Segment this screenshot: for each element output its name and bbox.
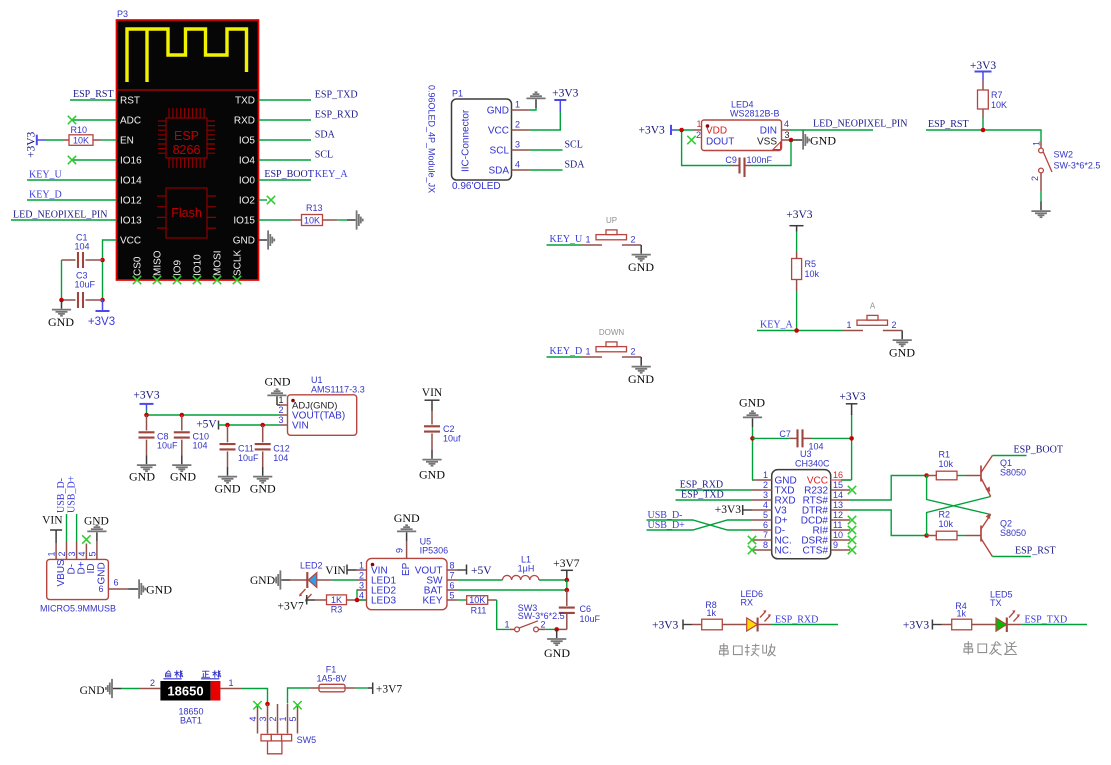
U3 pin 7 lead bbox=[752, 539, 772, 541]
svg-text:KEY_D: KEY_D bbox=[29, 190, 62, 201]
svg-text:3: 3 bbox=[67, 551, 77, 556]
svg-text:KEY_A: KEY_A bbox=[760, 320, 794, 331]
transistor Q2 S8050 bbox=[981, 515, 992, 557]
svg-text:2: 2 bbox=[892, 320, 897, 330]
svg-text:1: 1 bbox=[586, 235, 591, 245]
capacitor C1 104 bbox=[62, 259, 76, 261]
svg-text:14: 14 bbox=[833, 490, 843, 500]
no-connect on CS0 bbox=[133, 276, 141, 284]
svg-text:10k: 10k bbox=[939, 459, 954, 469]
no-connect on MISO bbox=[153, 276, 161, 284]
P1 pin 1 lead bbox=[512, 109, 530, 111]
U3 pin 15 lead bbox=[831, 489, 850, 491]
wire DIN / LED_NEOPIXEL_PIN bbox=[790, 129, 873, 131]
wire U5 BAT to C6 column bbox=[457, 589, 567, 591]
svg-text:ESP_TXD: ESP_TXD bbox=[681, 489, 724, 500]
svg-text:9: 9 bbox=[833, 540, 838, 550]
svg-text:+3V3: +3V3 bbox=[652, 619, 679, 631]
svg-text:USB_D+: USB_D+ bbox=[66, 475, 77, 513]
svg-text:+3V7: +3V7 bbox=[376, 684, 403, 696]
svg-text:IP5306: IP5306 bbox=[420, 546, 449, 556]
capacitor C10 104 bbox=[181, 415, 183, 431]
U3 pin 10 lead bbox=[831, 539, 850, 541]
svg-text:1k: 1k bbox=[957, 608, 967, 618]
wire LED5 to ESP_TXD bbox=[1007, 624, 1022, 626]
LED6 emission arrows bbox=[760, 612, 770, 622]
resistor R7 10K (vertical) bbox=[982, 81, 984, 91]
svg-text:10uF: 10uF bbox=[580, 614, 601, 624]
svg-text:0.96OLED_4P_Module_JX: 0.96OLED_4P_Module_JX bbox=[427, 85, 437, 193]
svg-text:+3V3: +3V3 bbox=[715, 504, 742, 516]
svg-text:10uF: 10uF bbox=[157, 441, 178, 451]
svg-text:IO14: IO14 bbox=[120, 176, 142, 187]
capacitor C3 plates bbox=[78, 292, 83, 308]
U3 pin 1 lead bbox=[752, 479, 772, 481]
svg-text:IO2: IO2 bbox=[239, 196, 256, 207]
svg-text:104: 104 bbox=[75, 242, 90, 252]
svg-text:ESP_RST: ESP_RST bbox=[1015, 545, 1056, 556]
svg-text:1: 1 bbox=[763, 470, 768, 480]
svg-text:ESP: ESP bbox=[174, 129, 199, 143]
svg-text:Q1: Q1 bbox=[1000, 458, 1012, 468]
ground left of LED2 bbox=[274, 570, 290, 589]
svg-text:GND: GND bbox=[628, 260, 654, 274]
svg-text:3: 3 bbox=[763, 490, 768, 500]
ground under SW2 bbox=[1031, 202, 1050, 218]
ground above U5 pin9 bbox=[397, 525, 416, 541]
wire USB_D- crossing to U3 D- bbox=[647, 520, 753, 530]
resistor R8 1k bbox=[692, 624, 702, 626]
wire LED_NEOPIXEL_PIN to IO13 bbox=[11, 219, 117, 221]
wire GND to battery pin2 bbox=[122, 688, 140, 690]
wire +3V3 to VDD and down to C9 bbox=[677, 130, 732, 166]
svg-text:4: 4 bbox=[77, 551, 87, 556]
svg-text:1k: 1k bbox=[707, 608, 717, 618]
svg-text:R10: R10 bbox=[71, 125, 88, 135]
wire +3V3 to R10 bbox=[46, 139, 63, 141]
wire +3V3 to R5 bbox=[796, 232, 798, 253]
svg-text:+3V7: +3V7 bbox=[553, 558, 580, 570]
svg-text:GND: GND bbox=[48, 315, 74, 329]
svg-text:GND: GND bbox=[889, 345, 915, 359]
svg-text:3: 3 bbox=[258, 716, 268, 721]
ground under A button bbox=[893, 331, 912, 347]
battery label 正极 (positive) bbox=[202, 671, 221, 679]
svg-text:IO9: IO9 bbox=[173, 259, 184, 276]
wire C7 to +3V3/VCC bbox=[812, 414, 852, 480]
svg-text:GND: GND bbox=[215, 482, 241, 496]
svg-text:ESP_BOOT: ESP_BOOT bbox=[1014, 444, 1063, 455]
wire U5 KEY to R11 bbox=[457, 599, 467, 601]
junction KEY_A/R5 bbox=[794, 328, 799, 333]
wire ADC bbox=[72, 119, 117, 121]
ground at USB pin6 bbox=[130, 579, 146, 598]
power flag +3V3 above U3 bbox=[851, 404, 853, 415]
svg-text:+3V3: +3V3 bbox=[639, 124, 666, 136]
LED LED6 (yellow) bbox=[747, 618, 758, 631]
ground under C3 bbox=[52, 300, 71, 316]
wire P1 pin1 to ground bbox=[530, 108, 537, 110]
capacitor C12 plates bbox=[255, 444, 271, 449]
svg-text:VCC: VCC bbox=[120, 236, 141, 247]
svg-text:4: 4 bbox=[784, 119, 789, 129]
svg-text:SCL: SCL bbox=[315, 150, 333, 161]
svg-text:EN: EN bbox=[120, 136, 134, 147]
svg-text:1: 1 bbox=[359, 561, 364, 571]
svg-text:SDA: SDA bbox=[488, 166, 509, 177]
ground under C11 bbox=[218, 467, 237, 483]
svg-text:GND: GND bbox=[419, 467, 445, 481]
svg-text:C2: C2 bbox=[443, 424, 455, 434]
power flag +3V3 under C3 bbox=[102, 300, 104, 311]
svg-text:10k: 10k bbox=[939, 519, 954, 529]
svg-text:7: 7 bbox=[450, 571, 455, 581]
wire R10 to EN bbox=[101, 139, 117, 141]
svg-text:104: 104 bbox=[273, 453, 288, 463]
svg-text:C11: C11 bbox=[238, 444, 254, 454]
capacitor C9 100nF bbox=[731, 165, 740, 167]
svg-text:AMS1117-3.3: AMS1117-3.3 bbox=[311, 385, 365, 395]
svg-text:VBUS: VBUS bbox=[56, 559, 67, 587]
wire IO4/SCL bbox=[259, 159, 312, 161]
no-connect U3 right pin at y=550 bbox=[848, 546, 856, 554]
U3 pin 8 lead bbox=[752, 549, 772, 551]
junction C10 bbox=[180, 413, 185, 418]
svg-text:3: 3 bbox=[359, 581, 364, 591]
no-connect U3 right pin at y=540 bbox=[848, 536, 856, 544]
connector P1 body bbox=[452, 99, 512, 180]
no-connect U3 right pin at y=530 bbox=[848, 526, 856, 534]
svg-text:IO4: IO4 bbox=[239, 156, 256, 167]
svg-text:TX: TX bbox=[990, 598, 1002, 608]
svg-text:2: 2 bbox=[541, 620, 546, 630]
switch SW3 bbox=[510, 628, 515, 630]
svg-text:9: 9 bbox=[395, 548, 405, 553]
wire VSS to ground bbox=[791, 139, 794, 141]
junction R1/cross bbox=[924, 473, 929, 478]
ground under DOWN button bbox=[632, 357, 651, 373]
svg-text:10k: 10k bbox=[805, 269, 820, 279]
svg-text:VIN: VIN bbox=[422, 387, 443, 399]
transistor Q1 S8050 bbox=[981, 456, 992, 497]
wire SW3 pin2 to GND node bbox=[539, 628, 546, 630]
svg-text:NC.: NC. bbox=[775, 545, 792, 556]
svg-text:+3V3: +3V3 bbox=[839, 391, 866, 403]
svg-text:MOSI: MOSI bbox=[213, 250, 224, 276]
wire KEY_A row bbox=[757, 330, 808, 332]
no-connect on IO9 bbox=[173, 276, 181, 284]
svg-text:Flash: Flash bbox=[171, 206, 202, 220]
svg-text:CTS#: CTS# bbox=[802, 545, 828, 556]
ground right of R13 bbox=[347, 210, 363, 229]
svg-text:5: 5 bbox=[763, 510, 768, 520]
no-connect on IO16 bbox=[68, 156, 76, 164]
svg-text:10K: 10K bbox=[73, 135, 89, 145]
svg-text:1: 1 bbox=[47, 551, 57, 556]
junction SW5 pin3 bbox=[265, 702, 270, 707]
svg-text:12: 12 bbox=[833, 510, 843, 520]
wire +3V3 rail to U1 VOUT bbox=[147, 410, 280, 415]
svg-text:TXD: TXD bbox=[235, 96, 255, 107]
svg-text:MISO: MISO bbox=[153, 250, 164, 276]
ESP8266 module P3 body bbox=[117, 20, 259, 280]
wire ESP_RXD to U3 TXD bbox=[676, 489, 753, 491]
U3 pin 9 lead bbox=[831, 549, 850, 551]
resistor R4 1k bbox=[942, 624, 952, 626]
svg-text:2: 2 bbox=[57, 551, 67, 556]
svg-text:R7: R7 bbox=[991, 90, 1003, 100]
wire IO16 bbox=[72, 159, 117, 161]
wire bbox=[808, 330, 843, 332]
svg-text:GND: GND bbox=[129, 470, 155, 484]
svg-text:ESP_TXD: ESP_TXD bbox=[315, 90, 358, 101]
svg-text:IO5: IO5 bbox=[239, 136, 256, 147]
svg-text:16: 16 bbox=[833, 470, 843, 480]
svg-text:6: 6 bbox=[763, 520, 768, 530]
resistor R11 10K bbox=[467, 596, 488, 605]
wire RXD bbox=[259, 119, 312, 121]
svg-text:ID: ID bbox=[86, 564, 97, 574]
svg-text:ESP_RST: ESP_RST bbox=[928, 119, 969, 130]
wire battery+ to SW5 pin3 bbox=[242, 689, 268, 704]
svg-text:1A5-8V: 1A5-8V bbox=[316, 673, 346, 683]
svg-text:C12: C12 bbox=[273, 444, 290, 454]
svg-text:R2: R2 bbox=[939, 510, 951, 520]
svg-text:15: 15 bbox=[833, 480, 843, 490]
U3 pin 2 lead bbox=[752, 489, 772, 491]
junction C11 bbox=[225, 423, 230, 428]
svg-text:4: 4 bbox=[359, 591, 364, 601]
LED LED5 (green) bbox=[996, 618, 1007, 631]
wire P1 pin2 to +3V3 bbox=[530, 112, 561, 130]
wire KEY_D to IO12 bbox=[27, 199, 117, 201]
P1 pin 3 lead bbox=[512, 149, 530, 151]
svg-text:100nF: 100nF bbox=[747, 155, 773, 165]
ground under SW3 bbox=[547, 629, 566, 645]
svg-text:LED_NEOPIXEL_PIN: LED_NEOPIXEL_PIN bbox=[13, 210, 107, 221]
svg-text:SW5: SW5 bbox=[297, 735, 317, 745]
svg-text:2: 2 bbox=[1030, 176, 1040, 181]
wire ESP_RST row bbox=[926, 130, 1041, 142]
U3 pin 5 lead bbox=[752, 519, 772, 521]
svg-text:SCLK: SCLK bbox=[233, 250, 244, 276]
svg-text:BAT1: BAT1 bbox=[180, 716, 202, 726]
svg-text:ESP_RXD: ESP_RXD bbox=[315, 110, 358, 121]
svg-text:1: 1 bbox=[586, 347, 591, 357]
svg-text:R1: R1 bbox=[939, 450, 951, 460]
svg-text:WS2812B-B: WS2812B-B bbox=[730, 109, 780, 119]
svg-text:8: 8 bbox=[763, 540, 768, 550]
svg-text:GND: GND bbox=[487, 106, 509, 117]
svg-text:GND: GND bbox=[544, 646, 570, 660]
svg-text:Q2: Q2 bbox=[1000, 519, 1012, 529]
svg-text:+3V3: +3V3 bbox=[26, 131, 38, 158]
wire Q2 collector / ESP_RST bbox=[992, 556, 1031, 558]
svg-text:S8050: S8050 bbox=[1000, 528, 1026, 538]
ESP8266 chip graphic bbox=[158, 108, 215, 168]
junction LED2/LED3 bbox=[355, 598, 360, 603]
wire P1 SCL bbox=[530, 149, 563, 151]
capacitor C1 plates bbox=[78, 252, 83, 268]
svg-text:S8050: S8050 bbox=[1000, 468, 1026, 478]
power flag +3V7 right of F1 bbox=[372, 683, 374, 695]
svg-text:VDD: VDD bbox=[706, 126, 727, 137]
junction C7 left bbox=[750, 436, 755, 441]
svg-text:LED_NEOPIXEL_PIN: LED_NEOPIXEL_PIN bbox=[813, 119, 907, 130]
SW5 body bbox=[261, 734, 271, 741]
svg-text:3: 3 bbox=[785, 130, 790, 140]
wire USB pin6 to ground bbox=[128, 588, 130, 590]
svg-text:10K: 10K bbox=[991, 100, 1007, 110]
wire U3 RTS# to R1 node bbox=[850, 476, 927, 501]
svg-text:2: 2 bbox=[763, 480, 768, 490]
svg-text:RXD: RXD bbox=[234, 116, 255, 127]
capacitor C11 plates bbox=[220, 444, 236, 449]
junction at LED4 VDD bbox=[679, 128, 684, 133]
label 串口发送 (serial transmit) bbox=[964, 642, 1017, 655]
svg-text:R3: R3 bbox=[331, 605, 343, 615]
svg-text:SW-3*6*2.5: SW-3*6*2.5 bbox=[1054, 161, 1101, 171]
resistor R5 10k (vertical) bbox=[796, 252, 798, 259]
svg-text:GND: GND bbox=[170, 470, 196, 484]
wire U3 DTR# to R2 node bbox=[850, 510, 927, 536]
wire R7 to ESP_RST bbox=[982, 118, 984, 130]
wire LED6 to ESP_RXD bbox=[758, 624, 771, 626]
wire cross to Q2 emitter bbox=[927, 476, 991, 515]
no-connect on DOUT bbox=[687, 136, 695, 144]
svg-text:10K: 10K bbox=[469, 595, 485, 605]
antenna trace bbox=[127, 29, 247, 82]
wire USB_D+ crossing to U3 D+ bbox=[647, 520, 753, 530]
svg-text:+3V3: +3V3 bbox=[903, 619, 930, 631]
ground under C2 bbox=[422, 450, 441, 466]
svg-text:6: 6 bbox=[98, 584, 103, 594]
svg-text:GND: GND bbox=[146, 583, 172, 597]
svg-text:U1: U1 bbox=[311, 375, 323, 385]
U3 pin 16 lead bbox=[831, 479, 850, 481]
svg-text:GND: GND bbox=[628, 372, 654, 386]
USB pin 6 lead bbox=[108, 588, 128, 590]
svg-text:ADC: ADC bbox=[120, 116, 141, 127]
svg-text:P3: P3 bbox=[117, 9, 128, 19]
svg-text:2: 2 bbox=[150, 678, 155, 688]
svg-text:1: 1 bbox=[847, 320, 852, 330]
wire IO2 bbox=[259, 199, 268, 201]
svg-text:7: 7 bbox=[763, 530, 768, 540]
no-connect on USB ID pin bbox=[82, 535, 90, 543]
junction at LED4 VSS bbox=[789, 138, 794, 143]
svg-text:6: 6 bbox=[114, 578, 119, 588]
power flag +5V at U5 VOUT bbox=[457, 569, 467, 571]
svg-text:18650: 18650 bbox=[167, 684, 203, 699]
svg-text:GND: GND bbox=[97, 562, 108, 584]
svg-text:SW2: SW2 bbox=[1054, 150, 1074, 160]
svg-text:SCL: SCL bbox=[565, 140, 583, 151]
svg-text:GND: GND bbox=[265, 375, 291, 389]
svg-text:KEY: KEY bbox=[422, 595, 442, 606]
junction ESP_RST/R7 bbox=[981, 128, 986, 133]
svg-text:2: 2 bbox=[631, 235, 636, 245]
wire SW5 pin1 to F1 bbox=[288, 688, 310, 704]
svg-text:5: 5 bbox=[87, 551, 97, 556]
ground at LED4 VSS bbox=[794, 130, 810, 149]
svg-text:RX: RX bbox=[741, 598, 754, 608]
svg-text:VIN: VIN bbox=[325, 565, 346, 577]
svg-text:+3V3: +3V3 bbox=[970, 60, 997, 72]
no-connect U3 right pin at y=490 bbox=[848, 486, 856, 494]
svg-text:SW-3*6*2.5: SW-3*6*2.5 bbox=[518, 611, 565, 621]
LED2 emission arrows bbox=[300, 589, 312, 601]
svg-text:DOUT: DOUT bbox=[706, 137, 734, 148]
wire VCC net bbox=[103, 240, 117, 300]
junction BAT/C6 bbox=[565, 588, 570, 593]
svg-text:+3V3: +3V3 bbox=[786, 209, 813, 221]
svg-text:1K: 1K bbox=[331, 595, 342, 605]
wire KEY_U to IO14 bbox=[27, 179, 117, 181]
svg-text:VSS: VSS bbox=[757, 137, 777, 148]
svg-text:104: 104 bbox=[193, 441, 208, 451]
no-connect U3 pin8 bbox=[748, 546, 756, 554]
svg-text:SDA: SDA bbox=[565, 160, 586, 171]
svg-text:4: 4 bbox=[763, 500, 768, 510]
svg-text:2: 2 bbox=[268, 716, 278, 721]
no-connect SW5 pin5 bbox=[293, 701, 301, 709]
svg-text:C9: C9 bbox=[725, 155, 737, 165]
svg-text:KEY_D: KEY_D bbox=[550, 346, 583, 357]
U3 pin 14 lead bbox=[831, 499, 850, 501]
U1 pin leads bbox=[279, 405, 288, 425]
resistor R1 10k bbox=[927, 475, 937, 477]
svg-text:10K: 10K bbox=[304, 215, 320, 225]
svg-text:DIN: DIN bbox=[760, 126, 777, 137]
svg-text:+5V: +5V bbox=[471, 565, 492, 577]
wire C9 to VSS bbox=[752, 140, 791, 166]
svg-text:104: 104 bbox=[809, 442, 824, 452]
ground above USB pin5 bbox=[87, 525, 106, 541]
P1 pin 4 lead bbox=[512, 169, 530, 171]
wire F1 to +3V7 bbox=[355, 687, 368, 689]
wire R13 to ground bbox=[337, 219, 347, 221]
ground at module GND pin bbox=[259, 230, 275, 249]
capacitor C2 plates bbox=[424, 426, 440, 431]
junction VCC/C3 bbox=[100, 298, 105, 303]
svg-text:1: 1 bbox=[278, 716, 288, 721]
svg-text:VIN: VIN bbox=[42, 514, 63, 526]
wire IO15 to R13 bbox=[259, 219, 293, 221]
IC U3 CH340C body bbox=[772, 470, 831, 559]
svg-text:5: 5 bbox=[288, 716, 298, 721]
svg-text:2: 2 bbox=[515, 120, 520, 130]
svg-text:2: 2 bbox=[359, 571, 364, 581]
battery label 负极 (negative) bbox=[164, 671, 183, 679]
svg-text:4: 4 bbox=[248, 716, 258, 721]
svg-text:VIN: VIN bbox=[292, 421, 309, 432]
svg-text:1: 1 bbox=[278, 395, 283, 405]
svg-text:GND: GND bbox=[739, 396, 765, 410]
svg-text:8: 8 bbox=[450, 561, 455, 571]
LED4 WS2812B body bbox=[702, 120, 782, 151]
ground under C12 bbox=[253, 467, 272, 483]
svg-text:8266: 8266 bbox=[173, 143, 201, 157]
U3 pin 11 lead bbox=[831, 529, 850, 531]
no-connect U3 right pin at y=520 bbox=[848, 516, 856, 524]
svg-text:IO0: IO0 bbox=[239, 176, 256, 187]
svg-text:DOWN: DOWN bbox=[599, 328, 625, 337]
wire C1/C3 left leg bbox=[61, 260, 63, 300]
no-connect on MOSI bbox=[213, 276, 221, 284]
battery BAT1 18650 bbox=[140, 688, 161, 690]
no-connect on IO2 bbox=[267, 196, 275, 204]
